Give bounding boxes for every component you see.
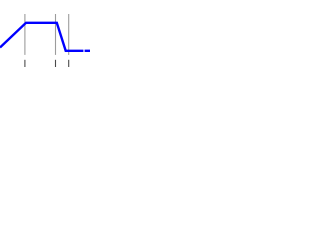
guide vertical 1 upper segment (x=24.9) [24, 14, 26, 55]
guide vertical 1 lower dash [24, 60, 26, 67]
guide vertical 2 upper segment (x=55.5) [55, 14, 57, 55]
blue curve: rise, plateau, fall [0, 23, 83, 51]
guide vertical 3 upper segment (x=68.7) [68, 14, 70, 55]
guide vertical 2 lower dash [55, 60, 57, 67]
guide vertical 3 lower dash [68, 60, 70, 67]
blue tail segment after gap [85, 50, 90, 52]
background [0, 0, 90, 90]
